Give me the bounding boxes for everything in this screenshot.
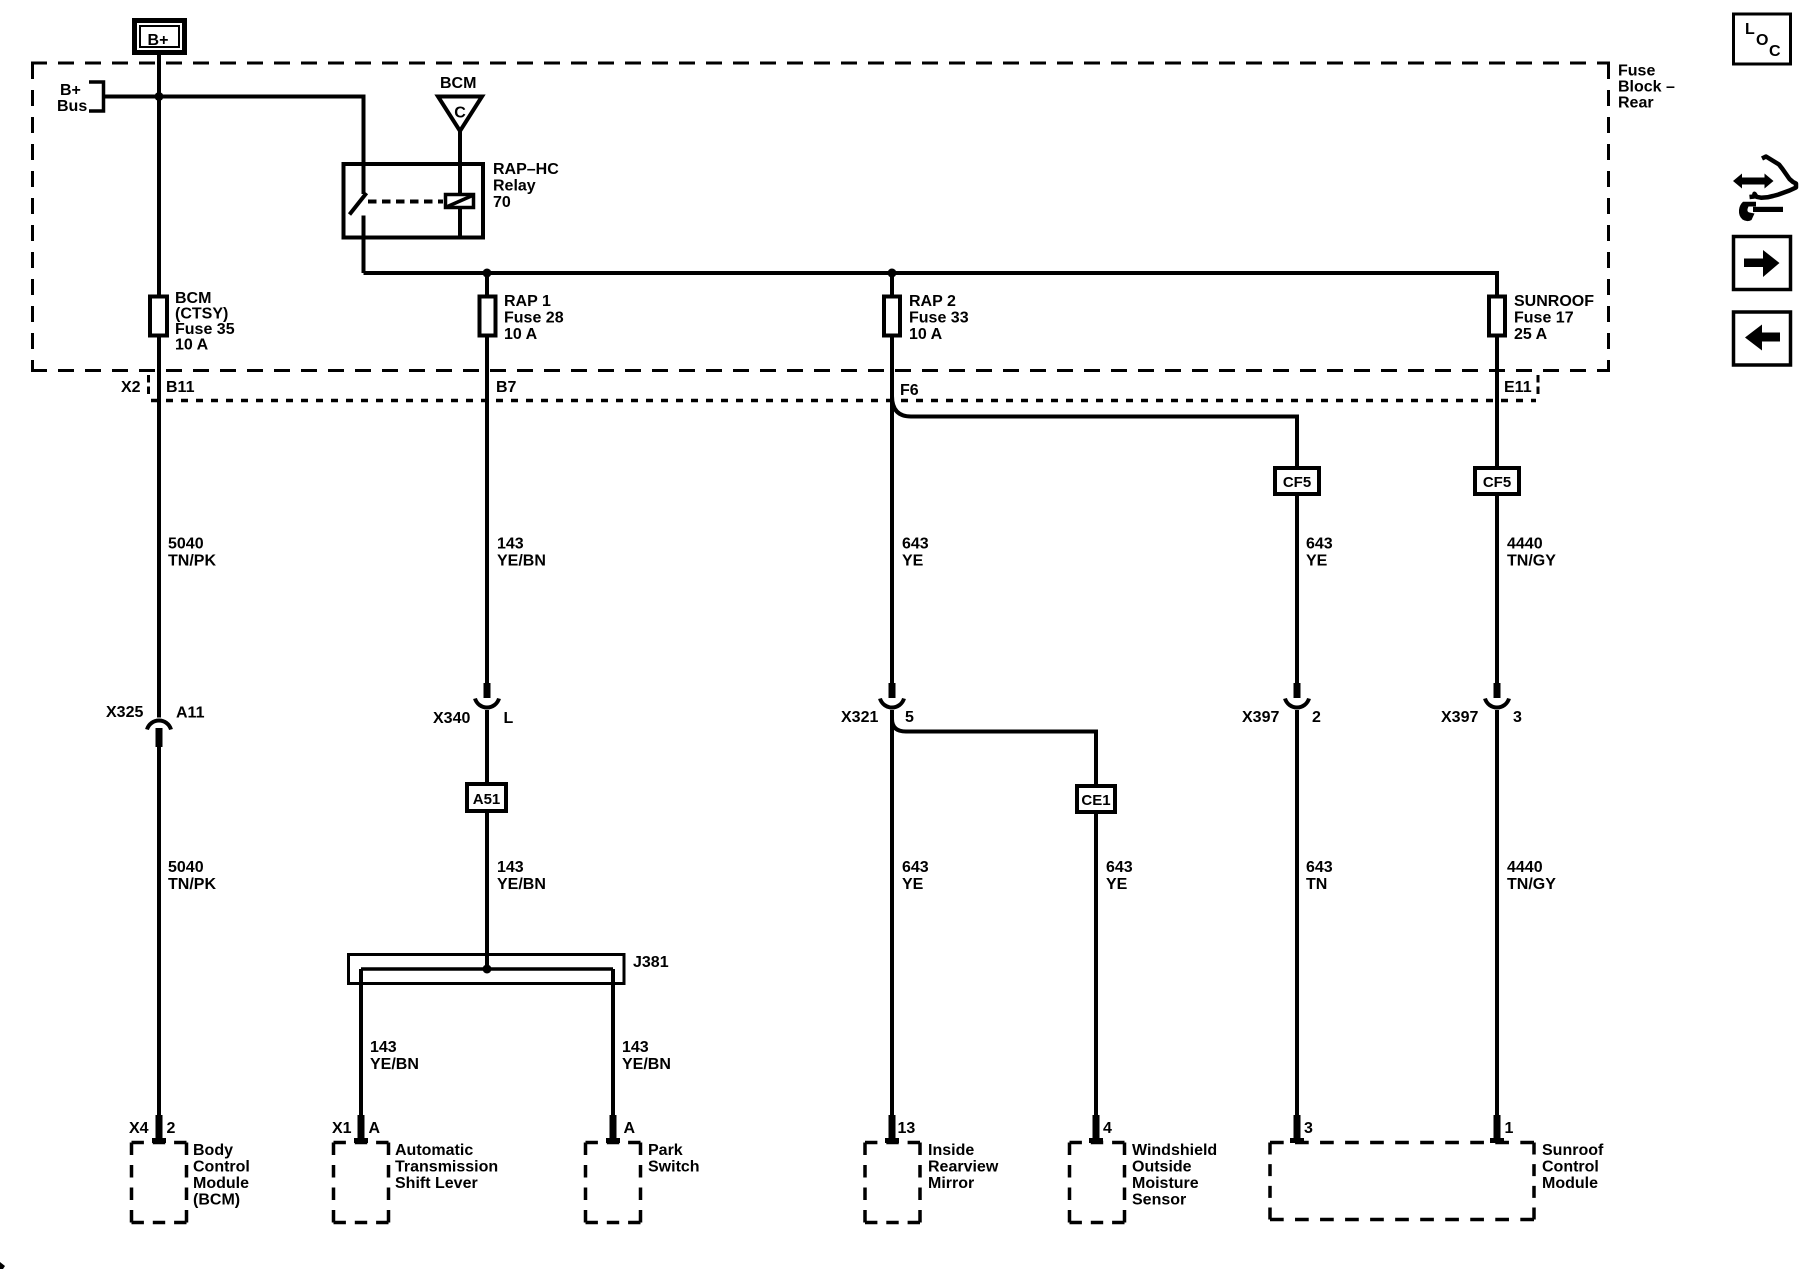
svg-text:L: L	[1745, 21, 1755, 38]
node BCM triangle C	[438, 75, 482, 131]
svg-text:25 A: 25 A	[1514, 326, 1548, 343]
relay actuation dashed link	[368, 200, 443, 204]
svg-text:X397: X397	[1242, 709, 1279, 726]
svg-text:Inside: Inside	[928, 1142, 974, 1159]
svg-text:143: 143	[497, 859, 524, 876]
svg-text:Rearview: Rearview	[928, 1159, 999, 1176]
svg-text:5040: 5040	[168, 536, 204, 553]
svg-text:643: 643	[902, 859, 929, 876]
icon LOC box	[1734, 14, 1791, 64]
component Inside Rearview Mirror	[865, 1115, 999, 1223]
B+ power symbol	[135, 21, 185, 53]
svg-text:Relay: Relay	[493, 178, 536, 195]
svg-text:3: 3	[1513, 709, 1522, 726]
svg-text:A: A	[624, 1120, 636, 1137]
connector X2 row dotted line	[151, 399, 1536, 403]
connector X397 pin 3	[1441, 683, 1522, 726]
fuse BCM (CTSY) Fuse 35 10A	[150, 290, 235, 354]
component Windshield Outside Moisture Sensor	[1070, 1115, 1218, 1223]
wire relay switch output to rail	[362, 216, 366, 274]
svg-text:Park: Park	[648, 1142, 683, 1159]
wire rail to RAP2 fuse	[890, 273, 894, 295]
connector X325 pin A11	[106, 704, 205, 747]
svg-text:Fuse 33: Fuse 33	[909, 310, 969, 327]
svg-text:Moisture: Moisture	[1132, 1175, 1199, 1192]
wire B+ to BCM fuse	[157, 55, 161, 295]
svg-text:5040: 5040	[168, 859, 204, 876]
pin B11	[166, 379, 195, 396]
svg-text:RAP–HC: RAP–HC	[493, 161, 559, 178]
svg-text:643: 643	[1106, 859, 1133, 876]
relay coil	[446, 195, 474, 240]
svg-text:YE/BN: YE/BN	[497, 876, 546, 893]
svg-text:X325: X325	[106, 704, 143, 721]
wire feed rail	[364, 273, 1498, 295]
svg-text:TN/PK: TN/PK	[168, 553, 216, 570]
svg-text:B11: B11	[166, 379, 195, 396]
wire J381 right leg 143 YE/BN	[613, 969, 671, 1116]
wire branch X321 to CE1	[892, 719, 1096, 784]
svg-text:X2: X2	[121, 379, 141, 396]
svg-text:TN/PK: TN/PK	[168, 876, 216, 893]
svg-text:Bus: Bus	[57, 98, 87, 115]
svg-text:10 A: 10 A	[504, 326, 538, 343]
pin B7	[496, 379, 517, 396]
svg-text:(BCM): (BCM)	[193, 1192, 240, 1209]
svg-text:Shift Lever: Shift Lever	[395, 1175, 478, 1192]
relay switch blade	[350, 193, 367, 215]
svg-text:143: 143	[622, 1039, 649, 1056]
svg-text:3: 3	[1304, 1120, 1313, 1137]
relay RAP-HC 70 box	[344, 161, 560, 238]
fuse RAP 1 Fuse 28 10A	[480, 293, 564, 343]
splice J381	[349, 954, 669, 984]
svg-text:1: 1	[1505, 1120, 1514, 1137]
svg-text:13: 13	[898, 1120, 916, 1137]
svg-text:A: A	[369, 1120, 381, 1137]
svg-text:BCM: BCM	[175, 290, 211, 307]
svg-text:Mirror: Mirror	[928, 1175, 974, 1192]
svg-text:Fuse 17: Fuse 17	[1514, 310, 1574, 327]
svg-text:CF5: CF5	[1483, 474, 1511, 491]
svg-text:YE/BN: YE/BN	[497, 553, 546, 570]
svg-text:(CTSY): (CTSY)	[175, 306, 228, 323]
svg-text:SUNROOF: SUNROOF	[1514, 293, 1594, 310]
wire 4440 TN/GY upper	[1497, 494, 1556, 684]
svg-text:4440: 4440	[1507, 536, 1543, 553]
svg-text:RAP 1: RAP 1	[504, 293, 551, 310]
connector X2 label	[121, 375, 149, 397]
fuse SUNROOF Fuse 17 25A	[1489, 293, 1594, 343]
svg-text:J381: J381	[633, 954, 669, 971]
connector X397 pin 2	[1242, 683, 1321, 726]
svg-text:B+: B+	[60, 82, 81, 99]
junction A51 wire / J381	[483, 965, 492, 974]
connector CF5 left	[1275, 468, 1319, 494]
junction B+ bus / B+ wire	[155, 92, 164, 101]
wire branch F6 to CF5	[892, 396, 1297, 466]
svg-text:C: C	[1769, 43, 1781, 60]
svg-text:5: 5	[905, 709, 914, 726]
svg-text:4: 4	[1103, 1120, 1112, 1137]
connector CE1	[1077, 786, 1115, 812]
wire X340 to A51	[485, 710, 489, 784]
svg-text:Module: Module	[193, 1175, 249, 1192]
junction rail RAP2	[888, 269, 897, 278]
svg-text:A51: A51	[473, 791, 501, 808]
svg-text:CE1: CE1	[1081, 792, 1110, 809]
wire B+ bus horizontal	[104, 97, 364, 195]
stray mark bottom left	[0, 1262, 5, 1269]
icon hotlink vehicle/wrench	[1733, 157, 1796, 222]
svg-text:X340: X340	[433, 710, 470, 727]
svg-text:Fuse 28: Fuse 28	[504, 310, 564, 327]
svg-text:TN/GY: TN/GY	[1507, 876, 1556, 893]
svg-text:143: 143	[370, 1039, 397, 1056]
label Fuse Block - Rear	[1618, 63, 1675, 112]
junction rail RAP1	[483, 269, 492, 278]
splice pack A51	[467, 784, 506, 811]
icon arrow left box	[1734, 312, 1791, 365]
svg-text:Windshield: Windshield	[1132, 1142, 1217, 1159]
wire 5040 TN/PK lower	[159, 747, 216, 1116]
svg-text:Block –: Block –	[1618, 79, 1675, 96]
wire X321 to mirror	[892, 710, 929, 1116]
svg-text:4440: 4440	[1507, 859, 1543, 876]
wire J381 left leg 143 YE/BN	[361, 969, 419, 1116]
wire 143 YE/BN to J381	[487, 811, 546, 969]
svg-text:643: 643	[1306, 859, 1333, 876]
component Park Switch	[586, 1115, 700, 1223]
svg-text:TN/GY: TN/GY	[1507, 553, 1556, 570]
svg-text:X1: X1	[332, 1120, 352, 1137]
node B+ Bus	[57, 82, 104, 115]
svg-text:YE: YE	[1306, 553, 1328, 570]
fuse RAP 2 Fuse 33 10A	[884, 293, 969, 343]
svg-text:L: L	[504, 710, 514, 727]
svg-text:B+: B+	[148, 32, 169, 49]
svg-text:X397: X397	[1441, 709, 1478, 726]
svg-text:Automatic: Automatic	[395, 1142, 473, 1159]
wire 4440 TN/GY lower	[1497, 710, 1556, 1116]
svg-text:X4: X4	[129, 1120, 149, 1137]
svg-text:F6: F6	[900, 382, 919, 399]
svg-text:643: 643	[1306, 536, 1333, 553]
svg-text:Fuse 35: Fuse 35	[175, 321, 235, 338]
svg-text:TN: TN	[1306, 876, 1327, 893]
icon arrow right box	[1734, 237, 1791, 290]
connector X321 pin 5	[841, 683, 914, 726]
wire 643 YE to moisture sensor	[1096, 812, 1133, 1116]
pin F6	[900, 382, 919, 399]
svg-text:YE/BN: YE/BN	[622, 1056, 671, 1073]
wire SUNROOF fuse to CF5 right	[1495, 338, 1499, 467]
wire 5040 TN/PK upper	[159, 338, 216, 718]
svg-text:143: 143	[497, 536, 524, 553]
svg-text:2: 2	[167, 1120, 176, 1137]
svg-text:YE/BN: YE/BN	[370, 1056, 419, 1073]
component Sunroof Control Module	[1270, 1115, 1604, 1220]
svg-text:10 A: 10 A	[175, 337, 209, 354]
wire 643 YE upper (RAP2)	[892, 338, 929, 685]
svg-text:Sensor: Sensor	[1132, 1192, 1186, 1209]
svg-text:E11: E11	[1504, 379, 1532, 396]
svg-text:Transmission: Transmission	[395, 1159, 498, 1176]
wire 143 YE/BN upper	[487, 338, 546, 685]
svg-text:Control: Control	[193, 1159, 250, 1176]
svg-text:YE: YE	[902, 876, 924, 893]
connector CF5 right	[1475, 468, 1519, 494]
svg-text:CF5: CF5	[1283, 474, 1311, 491]
svg-text:YE: YE	[1106, 876, 1128, 893]
svg-text:B7: B7	[496, 379, 517, 396]
wire BCM triangle to relay coil	[458, 130, 462, 194]
svg-text:X321: X321	[841, 709, 878, 726]
svg-text:Sunroof: Sunroof	[1542, 1142, 1604, 1159]
svg-text:10 A: 10 A	[909, 326, 943, 343]
svg-text:C: C	[454, 105, 466, 122]
svg-text:BCM: BCM	[440, 75, 476, 92]
svg-text:Switch: Switch	[648, 1159, 700, 1176]
svg-text:O: O	[1756, 32, 1768, 49]
component Body Control Module (BCM)	[129, 1115, 250, 1223]
wire 643 TN to sunroof module	[1297, 710, 1333, 1116]
wire 643 YE below CF5	[1297, 494, 1333, 684]
svg-text:70: 70	[493, 194, 511, 211]
component Automatic Transmission Shift Lever	[332, 1115, 498, 1223]
svg-text:643: 643	[902, 536, 929, 553]
svg-text:Fuse: Fuse	[1618, 63, 1655, 80]
svg-text:2: 2	[1312, 709, 1321, 726]
pin E11	[1504, 375, 1538, 397]
svg-text:Rear: Rear	[1618, 95, 1654, 112]
wire rail to RAP1 fuse	[485, 273, 489, 295]
svg-text:A11: A11	[176, 705, 205, 722]
svg-text:Body: Body	[193, 1142, 233, 1159]
Fuse Block - Rear dashed border	[31, 63, 1610, 371]
connector X340 pin L	[433, 683, 514, 727]
svg-text:Module: Module	[1542, 1175, 1598, 1192]
svg-text:Control: Control	[1542, 1159, 1599, 1176]
svg-text:Outside: Outside	[1132, 1159, 1192, 1176]
svg-text:YE: YE	[902, 553, 924, 570]
svg-text:RAP 2: RAP 2	[909, 293, 956, 310]
